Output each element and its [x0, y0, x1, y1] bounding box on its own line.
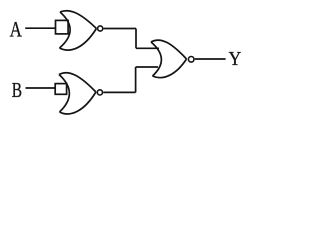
NOR gate U3: [151, 40, 187, 78]
wire U3 output: [195, 58, 226, 60]
U3 output bubble: [188, 57, 194, 63]
wire riser down: [135, 29, 137, 49]
svg-text:A: A: [10, 17, 22, 42]
wire U2 output to riser: [103, 91, 135, 93]
NOR gate U2 (inputs tied, inverter): [59, 73, 96, 114]
tied-input rectangle of gate U1: [56, 20, 69, 34]
wire riser up: [135, 67, 137, 92]
wire into U3 top input: [136, 47, 159, 49]
wire A input: [25, 27, 55, 29]
wire into U3 bottom input: [136, 66, 158, 68]
wire B input: [26, 87, 56, 89]
wire U1 output to riser: [104, 28, 136, 30]
svg-text:Y: Y: [229, 48, 242, 70]
tied-input rectangle of gate U2: [55, 84, 66, 95]
NOR gate U1 (inputs tied, inverter): [60, 11, 97, 50]
svg-text:B: B: [12, 78, 22, 102]
U1 output bubble: [98, 26, 103, 31]
U2 output bubble: [97, 90, 102, 95]
